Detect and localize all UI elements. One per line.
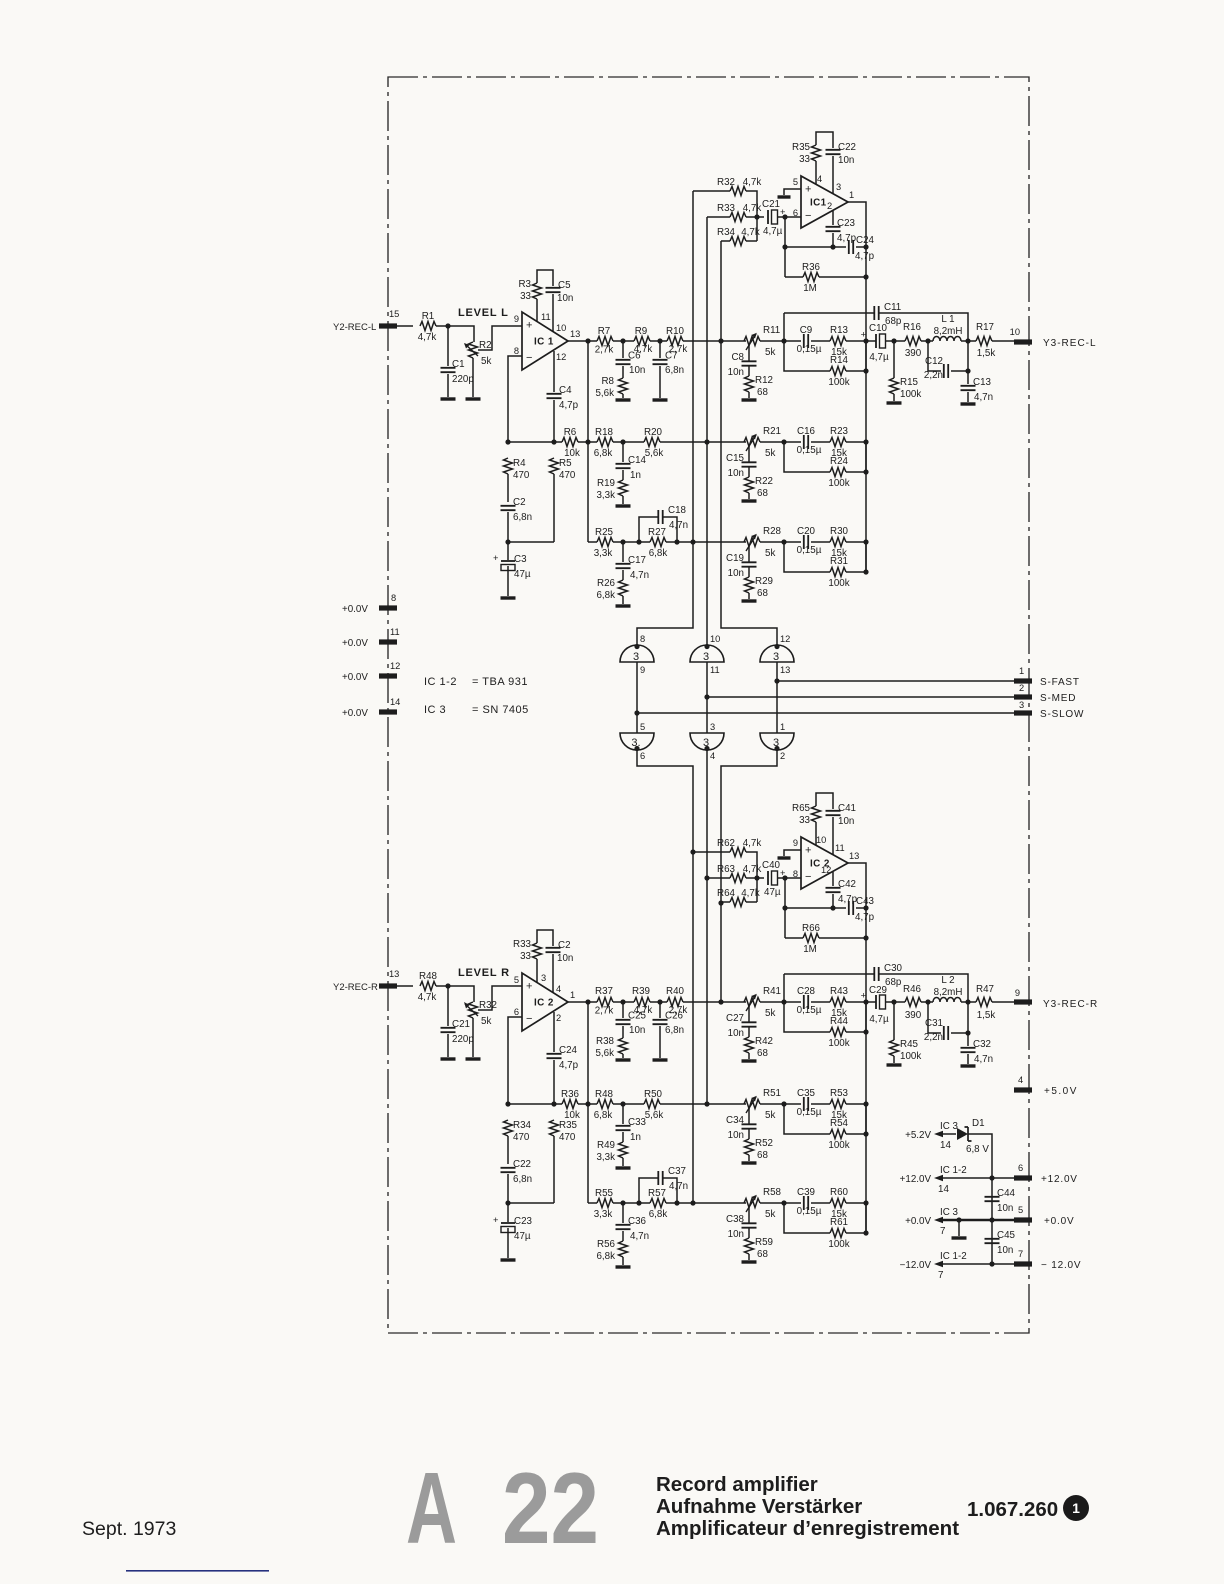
svg-text:4,7n: 4,7n bbox=[669, 1181, 688, 1192]
svg-text:4,7k: 4,7k bbox=[741, 888, 760, 899]
label IC1-2 pin 7 bbox=[938, 1251, 967, 1281]
wire R66 row bbox=[785, 937, 866, 939]
svg-text:D1: D1 bbox=[972, 1118, 985, 1129]
wire R11 wiper down bbox=[748, 343, 750, 361]
terminal 5 (+0.0V) bbox=[1014, 1205, 1032, 1223]
pin 6 label IC2a bbox=[514, 1007, 519, 1017]
svg-text:C22: C22 bbox=[513, 1159, 531, 1170]
pin 5 label IC1b bbox=[793, 177, 798, 187]
wire R33 lower to IC2a pin 3 bbox=[536, 959, 538, 982]
node +0.0V label (pin 8) bbox=[342, 604, 368, 615]
wire R44 to rail (lower) bbox=[846, 1002, 866, 1032]
svg-text:R65: R65 bbox=[792, 803, 811, 814]
resistor R45 bbox=[890, 1039, 922, 1062]
wire bus1 upper (R32 to gate) bbox=[637, 191, 693, 645]
svg-text:6,8k: 6,8k bbox=[649, 548, 668, 559]
resistor R13 bbox=[830, 325, 849, 358]
svg-text:R66: R66 bbox=[802, 923, 821, 934]
svg-text:R12: R12 bbox=[755, 375, 773, 386]
junction row2/C33 bbox=[620, 1101, 625, 1106]
wire C17 top bbox=[622, 542, 624, 562]
svg-text:R55: R55 bbox=[595, 1188, 614, 1199]
wire 0V ground stub bbox=[956, 1217, 961, 1236]
svg-text:4,7µ: 4,7µ bbox=[763, 226, 783, 237]
svg-text:IC 1-2: IC 1-2 bbox=[424, 676, 457, 688]
resistor R34 (lower) bbox=[504, 1120, 532, 1143]
svg-text:R21: R21 bbox=[763, 426, 781, 437]
wire C26 to ground bbox=[659, 1026, 661, 1058]
wire R32 wiper to IC2 pin 5 bbox=[478, 986, 522, 1010]
svg-text:390: 390 bbox=[905, 1010, 922, 1021]
svg-text:R7: R7 bbox=[598, 326, 611, 337]
svg-text:Y3-REC-R: Y3-REC-R bbox=[1043, 999, 1098, 1010]
resistor R53 (lower) bbox=[830, 1088, 849, 1121]
inductor L2 bbox=[933, 975, 962, 1002]
pin 2 label IC2a bbox=[556, 1013, 561, 1023]
wire R43 to rail (lower) bbox=[846, 1001, 866, 1003]
wire R48 to R32 pot bbox=[436, 986, 474, 1002]
terminal 12 (+0.0V) bbox=[379, 661, 400, 679]
svg-text:IC 3: IC 3 bbox=[940, 1207, 959, 1218]
resistor R48 (input) bbox=[418, 971, 438, 1003]
svg-text:= SN 7405: = SN 7405 bbox=[472, 704, 529, 716]
wire C33 top bbox=[622, 1104, 624, 1124]
junction R36/rail bbox=[863, 274, 868, 279]
svg-text:C27: C27 bbox=[726, 1013, 744, 1024]
wire R35/C22 loop bbox=[816, 132, 833, 148]
capacitor C21 (lower) bbox=[441, 1019, 475, 1045]
svg-text:6: 6 bbox=[1018, 1163, 1023, 1173]
svg-text:5k: 5k bbox=[765, 448, 775, 459]
svg-text:R44: R44 bbox=[830, 1016, 849, 1027]
wire R19 to ground bbox=[622, 496, 624, 504]
wire R36 to R48 (6,8k) bbox=[578, 1103, 597, 1105]
svg-text:IC 2: IC 2 bbox=[534, 998, 554, 1009]
svg-text:5: 5 bbox=[1018, 1205, 1023, 1215]
resistor R26 bbox=[596, 578, 627, 601]
wire IC1a pin 8 to feedback node bbox=[508, 356, 522, 442]
wire R33/C2 loop (lower) bbox=[537, 930, 553, 946]
wire R57 to pot R58 bbox=[666, 1202, 746, 1204]
resistor R43 (lower) bbox=[830, 986, 849, 1019]
terminal 10 (Y3-REC-L) bbox=[1010, 327, 1032, 345]
svg-text:R53: R53 bbox=[830, 1088, 849, 1099]
svg-text:6,8k: 6,8k bbox=[596, 590, 615, 601]
svg-text:C22: C22 bbox=[838, 142, 856, 153]
svg-text:S-FAST: S-FAST bbox=[1040, 677, 1080, 688]
resistor R19 bbox=[596, 478, 627, 501]
wire C13 top bbox=[967, 341, 969, 384]
svg-text:R5: R5 bbox=[559, 458, 572, 469]
svg-text:R10: R10 bbox=[666, 326, 685, 337]
svg-text:C37: C37 bbox=[668, 1166, 686, 1177]
svg-text:C13: C13 bbox=[973, 377, 992, 388]
wire R3/C5 loop bbox=[537, 270, 553, 286]
ground C23 lower bbox=[501, 1258, 516, 1261]
resistor R40 bbox=[666, 986, 687, 1016]
capacitor C27 (lower) bbox=[726, 1013, 756, 1039]
svg-text:C32: C32 bbox=[973, 1039, 991, 1050]
svg-text:IC 1: IC 1 bbox=[534, 337, 554, 348]
wire C15 to R22 bbox=[748, 468, 750, 478]
svg-text:68: 68 bbox=[757, 488, 768, 499]
svg-text:R14: R14 bbox=[830, 355, 849, 366]
junction bus2/row2 bbox=[704, 439, 709, 444]
wire C2 to C3 bbox=[507, 512, 509, 560]
svg-text:470: 470 bbox=[513, 470, 530, 481]
capacitor C29 (electrolytic) bbox=[861, 985, 889, 1025]
capacitor C11 bbox=[874, 302, 902, 327]
junction IC1a output bbox=[585, 338, 590, 343]
svg-text:47µ: 47µ bbox=[514, 569, 531, 580]
ground R59 (lower) bbox=[742, 1260, 757, 1263]
resistor R64 bbox=[717, 888, 760, 907]
wire R2 to ground bbox=[472, 358, 474, 397]
capacitor C23 (lower electrolytic) bbox=[493, 1215, 533, 1242]
junction R48/C21 bbox=[445, 983, 450, 988]
junction row3/C36 bbox=[620, 1200, 625, 1205]
capacitor C4 bbox=[547, 385, 579, 411]
wire C24 row bbox=[785, 246, 866, 248]
svg-text:4,7µ: 4,7µ bbox=[869, 1014, 889, 1025]
ground R12 bbox=[742, 398, 757, 401]
capacitor C23 bbox=[826, 218, 857, 244]
svg-text:+: + bbox=[861, 991, 866, 1001]
wire C16 to R23 bbox=[811, 441, 830, 443]
resistor R66 bbox=[802, 923, 821, 955]
svg-text:−: − bbox=[526, 352, 532, 364]
resistor R38 bbox=[595, 1036, 627, 1059]
svg-text:R11: R11 bbox=[763, 325, 780, 336]
svg-text:3,3k: 3,3k bbox=[596, 490, 615, 501]
wire R6 to R18 bbox=[578, 441, 597, 443]
svg-text:68: 68 bbox=[757, 1249, 768, 1260]
wire C28 left lead (lower) bbox=[760, 1001, 801, 1003]
svg-text:47µ: 47µ bbox=[514, 1231, 531, 1242]
wire R2 wiper to IC1 pin 9 bbox=[478, 326, 522, 350]
resistor R33 (lower) bbox=[513, 939, 541, 962]
wire R58 wiper down (lower) bbox=[748, 1205, 750, 1223]
wire C21 lower top bbox=[447, 986, 449, 1026]
svg-text:0,15µ: 0,15µ bbox=[797, 344, 822, 355]
svg-text:4,7p: 4,7p bbox=[559, 400, 579, 411]
svg-text:R25: R25 bbox=[595, 527, 614, 538]
ground R2 bbox=[466, 397, 481, 400]
svg-text:C20: C20 bbox=[797, 526, 816, 537]
svg-text:+0.0V: +0.0V bbox=[1044, 1216, 1074, 1227]
svg-text:4,7k: 4,7k bbox=[743, 203, 762, 214]
node +0.0V label (pin 12) bbox=[342, 672, 368, 683]
capacitor C10 (electrolytic) bbox=[861, 323, 889, 363]
resistor R35 (lower) bbox=[550, 1120, 578, 1143]
junction C21/feedback bbox=[782, 214, 787, 219]
wire output to row2 bbox=[587, 341, 589, 542]
svg-text:IC1: IC1 bbox=[810, 198, 827, 209]
wire R46 to L2 bbox=[921, 1001, 933, 1003]
junction R16/L1 bbox=[925, 338, 930, 343]
svg-text:8,2mH: 8,2mH bbox=[934, 326, 963, 337]
wire +0.0V line bbox=[934, 1217, 1014, 1223]
wire C16 left lead bbox=[760, 441, 801, 443]
junction row2/R4 bbox=[505, 439, 510, 444]
junction output/row2 lower bbox=[585, 1101, 590, 1106]
ground R26 bbox=[616, 604, 631, 607]
capacitor C18 bbox=[658, 505, 688, 531]
svg-text:11: 11 bbox=[390, 627, 400, 637]
capacitor C28 (lower) bbox=[797, 986, 822, 1016]
svg-text:Y2-REC-L: Y2-REC-L bbox=[333, 322, 376, 333]
label IC3 pin 14 bbox=[938, 1121, 959, 1151]
op-amp IC2 (section B) bbox=[801, 837, 848, 889]
wire R35 lower down bbox=[553, 1136, 555, 1203]
svg-text:R18: R18 bbox=[595, 427, 614, 438]
terminal 3 (S-SLOW) bbox=[1014, 700, 1032, 716]
terminal 11 (+0.0V) bbox=[379, 627, 400, 645]
svg-text:R45: R45 bbox=[900, 1039, 919, 1050]
wire IC2b pin 12 to C42 bbox=[832, 872, 834, 886]
wire D1 to supply rail bbox=[968, 1134, 992, 1264]
svg-text:5k: 5k bbox=[765, 1110, 775, 1121]
node Y2-REC-R label bbox=[333, 982, 378, 993]
svg-text:4,7n: 4,7n bbox=[630, 1231, 649, 1242]
wire R29 to ground bbox=[748, 593, 750, 599]
capacitor C19 bbox=[726, 553, 756, 579]
svg-text:R29: R29 bbox=[755, 576, 773, 587]
junction bus3/row1 lower bbox=[718, 999, 723, 1004]
svg-text:Record amplifier: Record amplifier bbox=[656, 1473, 818, 1496]
svg-text:9: 9 bbox=[793, 838, 798, 848]
svg-text:R42: R42 bbox=[755, 1036, 773, 1047]
ground 0V bbox=[952, 1236, 967, 1239]
wire C25 top bbox=[622, 1002, 624, 1018]
svg-text:C8: C8 bbox=[731, 352, 744, 363]
resistor R7 bbox=[595, 326, 614, 356]
svg-text:10n: 10n bbox=[838, 816, 854, 827]
wire C32 to ground bbox=[967, 1054, 969, 1064]
wire R20 to pot R21 bbox=[660, 441, 746, 443]
wire R52 to ground (lower) bbox=[748, 1155, 750, 1161]
junction C43/rail bbox=[863, 905, 868, 910]
wire C1 top bbox=[447, 326, 449, 366]
capacitor C3 bbox=[493, 553, 531, 580]
wire C7 to ground bbox=[659, 366, 661, 398]
svg-text:7: 7 bbox=[1018, 1249, 1023, 1259]
label title english bbox=[656, 1473, 818, 1496]
svg-text:11: 11 bbox=[541, 312, 551, 322]
resistor R36 bbox=[802, 262, 821, 294]
resistor R48 (6,8k) bbox=[594, 1089, 614, 1121]
svg-text:100k: 100k bbox=[828, 1239, 849, 1250]
svg-text:C9: C9 bbox=[800, 325, 813, 336]
junction rail/R54 (lower) bbox=[863, 1131, 868, 1136]
svg-text:R38: R38 bbox=[596, 1036, 615, 1047]
svg-text:R40: R40 bbox=[666, 986, 685, 997]
svg-text:5: 5 bbox=[640, 722, 645, 732]
wire R9 to R10 bbox=[650, 340, 667, 342]
wire C20 left lead bbox=[760, 541, 801, 543]
capacitor C25 bbox=[616, 1011, 647, 1037]
wire R60 to rail (lower) bbox=[846, 1202, 866, 1204]
svg-text:0,15µ: 0,15µ bbox=[797, 1107, 822, 1118]
capacitor C15 bbox=[726, 453, 756, 479]
terminal 15 (Y2-REC-L) bbox=[379, 309, 399, 329]
svg-text:R59: R59 bbox=[755, 1237, 773, 1248]
capacitor C2 bbox=[501, 497, 533, 523]
svg-text:6: 6 bbox=[640, 751, 645, 761]
resistor R1 bbox=[418, 311, 437, 343]
svg-text:C1: C1 bbox=[452, 359, 465, 370]
svg-text:R26: R26 bbox=[597, 578, 616, 589]
wire C8 to R12 bbox=[748, 367, 750, 377]
svg-text:9: 9 bbox=[1015, 988, 1020, 998]
svg-text:2,7k: 2,7k bbox=[595, 345, 614, 356]
capacitor C41 bbox=[826, 803, 856, 827]
wire -12.0V line bbox=[934, 1261, 1014, 1267]
svg-text:R16: R16 bbox=[903, 322, 922, 333]
wire R38 to ground bbox=[622, 1054, 624, 1058]
svg-text:R48: R48 bbox=[595, 1089, 614, 1100]
wire R33 row bbox=[707, 216, 764, 218]
resistor R4 bbox=[504, 458, 530, 481]
ground C32 bbox=[961, 1064, 976, 1067]
svg-text:C15: C15 bbox=[726, 453, 745, 464]
svg-text:14: 14 bbox=[390, 697, 400, 707]
wire R30 to rail bbox=[846, 541, 866, 543]
svg-text:10n: 10n bbox=[728, 1028, 744, 1039]
svg-text:1M: 1M bbox=[803, 944, 817, 955]
junction rail/row bbox=[863, 338, 868, 343]
node +0.0V label (pin 11) bbox=[342, 638, 368, 649]
wire C43 row bbox=[785, 907, 866, 909]
svg-text:R36: R36 bbox=[561, 1089, 580, 1100]
wire R21 wiper down bbox=[748, 444, 750, 462]
svg-text:Y3-REC-L: Y3-REC-L bbox=[1043, 338, 1097, 349]
capacitor C17 bbox=[616, 555, 650, 581]
resistor R33 bbox=[717, 203, 761, 222]
pin 8 label IC2b bbox=[793, 869, 798, 879]
wire C37 loop bbox=[639, 1178, 677, 1203]
capacitor C26 bbox=[653, 1011, 685, 1037]
svg-text:5,6k: 5,6k bbox=[645, 1110, 664, 1121]
pin 10 label IC1a bbox=[556, 323, 566, 333]
wire C11 row bbox=[784, 313, 968, 341]
op-amp IC2 (section A) bbox=[522, 973, 568, 1031]
inverter IC3 gate 1 (top row) bbox=[620, 634, 654, 675]
svg-text:R33: R33 bbox=[513, 939, 532, 950]
wire C17 to R26 bbox=[622, 570, 624, 580]
label IC1-2 pin 14 bbox=[938, 1165, 967, 1195]
label title german bbox=[656, 1495, 862, 1518]
pin 8 label IC1a bbox=[514, 346, 519, 356]
svg-text:C23: C23 bbox=[837, 218, 856, 229]
svg-text:13: 13 bbox=[389, 969, 399, 979]
junction bus2/row2 lower bbox=[704, 1101, 709, 1106]
wire IC1b pin 2 to C23 bbox=[832, 211, 834, 225]
svg-text:33: 33 bbox=[520, 951, 531, 962]
svg-text:6,8n: 6,8n bbox=[665, 365, 684, 376]
svg-text:3: 3 bbox=[836, 182, 841, 192]
node Y3-REC-R label bbox=[1043, 999, 1098, 1010]
svg-text:5k: 5k bbox=[765, 1008, 775, 1019]
capacitor C13 bbox=[961, 377, 994, 403]
svg-text:R54: R54 bbox=[830, 1118, 849, 1129]
pin 11 label IC2b bbox=[835, 843, 845, 853]
svg-text:0,15µ: 0,15µ bbox=[797, 1206, 822, 1217]
svg-text:22: 22 bbox=[502, 1453, 599, 1565]
svg-text:R34: R34 bbox=[717, 227, 736, 238]
svg-text:R60: R60 bbox=[830, 1187, 849, 1198]
wire R31 loop bbox=[784, 542, 830, 572]
pin 2 label IC1b bbox=[827, 201, 832, 211]
junction C24/rail bbox=[863, 244, 868, 249]
wire R41 wiper down (lower) bbox=[748, 1004, 750, 1022]
svg-text:LEVEL L: LEVEL L bbox=[458, 307, 509, 319]
potentiometer R58 (lower) bbox=[744, 1187, 782, 1220]
svg-text:R62: R62 bbox=[717, 838, 735, 849]
wire L2 to R47 bbox=[961, 1001, 976, 1003]
junction row2/R35 lower bbox=[551, 1101, 556, 1106]
svg-text:13: 13 bbox=[780, 665, 790, 675]
wire R25 to C18 loop bbox=[613, 541, 650, 543]
wire IC2a pin 6 to feedback node bbox=[508, 1017, 522, 1104]
label +5.2V bbox=[905, 1130, 931, 1141]
junction -12V rail bbox=[989, 1261, 994, 1266]
resistor R25 bbox=[594, 527, 614, 559]
wire R48 to R50 bbox=[613, 1103, 644, 1105]
svg-text:4,7p: 4,7p bbox=[855, 912, 875, 923]
capacitor C22 (lower) bbox=[501, 1159, 533, 1185]
label IC1-2 type bbox=[424, 676, 528, 688]
resistor R18 bbox=[594, 427, 614, 459]
wire row3 lower left bbox=[588, 1202, 597, 1204]
resistor R50 bbox=[644, 1089, 663, 1121]
junction row2/R34 lower bbox=[505, 1101, 510, 1106]
svg-text:R36: R36 bbox=[802, 262, 821, 273]
inverter IC3 gate 4 (bottom row) bbox=[620, 722, 654, 761]
wire R1 to R2 bbox=[436, 326, 474, 342]
resistor R62 bbox=[717, 838, 761, 857]
svg-text:L 2: L 2 bbox=[941, 975, 954, 986]
wire C36 to R56 bbox=[622, 1231, 624, 1241]
junction rail/row (lower) bbox=[863, 1200, 868, 1205]
wire R34 to C22 lower bbox=[507, 1136, 509, 1164]
wire R5 down bbox=[553, 474, 555, 542]
wire R24 to rail bbox=[846, 442, 866, 472]
wire C6 to R8 bbox=[622, 366, 624, 378]
svg-text:68: 68 bbox=[757, 1048, 768, 1059]
svg-text:10: 10 bbox=[710, 634, 720, 644]
svg-text:10n: 10n bbox=[728, 468, 744, 479]
junction R63/C40 bbox=[754, 875, 759, 880]
capacitor C38 (lower) bbox=[726, 1214, 756, 1240]
svg-text:C40: C40 bbox=[762, 860, 781, 871]
junction S-FAST tap bbox=[774, 678, 779, 683]
wire R62 row bbox=[693, 852, 757, 902]
capacitor C8 bbox=[728, 352, 757, 378]
junction rail/R14 bbox=[863, 368, 868, 373]
wire +5.2V to D1 bbox=[934, 1131, 956, 1137]
wire C25 to R38 bbox=[622, 1026, 624, 1038]
svg-text:+: + bbox=[526, 981, 532, 993]
svg-text:+5.2V: +5.2V bbox=[905, 1130, 931, 1141]
svg-text:2,7k: 2,7k bbox=[595, 1006, 614, 1017]
pin 6 label IC1b bbox=[793, 208, 798, 218]
svg-text:+: + bbox=[861, 330, 866, 340]
wire R54 loop (lower) bbox=[784, 1104, 830, 1134]
svg-text:C5: C5 bbox=[558, 280, 571, 291]
svg-text:10n: 10n bbox=[557, 293, 573, 304]
resistor R56 bbox=[596, 1239, 627, 1262]
